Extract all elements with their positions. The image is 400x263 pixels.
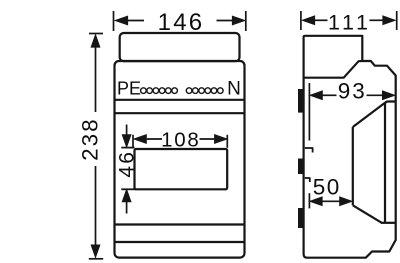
terminal circles group 2 (186, 88, 223, 94)
side view window trapezoid bottom diagonal (353, 205, 382, 222)
front view lid (120, 33, 240, 61)
front view line under PE/N strip (115, 99, 245, 101)
terminal circles group 1 (141, 88, 178, 94)
dim 108 right tick (226, 135, 228, 148)
dim 46 down arrow (126, 125, 128, 137)
front view body (115, 61, 245, 258)
dim 146 line + arrows (127, 20, 144, 22)
svg-text:111: 111 (328, 11, 371, 35)
dim 238 line + arrows (95, 47, 97, 113)
dim 111 line + arrows (314, 19, 328, 21)
dim 111 extension right (396, 11, 398, 30)
svg-text:108: 108 (161, 129, 200, 152)
svg-text:50: 50 (313, 174, 341, 199)
front view lower line 1 (115, 223, 245, 225)
dim 93 left tick (308, 83, 310, 141)
dim 238 bottom tick (89, 258, 103, 260)
svg-text:146: 146 (158, 9, 205, 36)
side view wall tab 3 (298, 208, 303, 228)
dim 46 up arrow (126, 201, 128, 214)
side view wall tab 1 (298, 89, 303, 113)
front view line 2 (115, 112, 245, 114)
dim 108 left tick (132, 135, 134, 148)
side view mounting hook upper (305, 148, 313, 153)
svg-text:PE: PE (117, 78, 141, 98)
side view window face bottom connector (381, 222, 396, 224)
side view window trapezoid top diagonal (353, 103, 385, 127)
dim 146 extension left (113, 11, 115, 31)
svg-text:46: 46 (116, 150, 139, 178)
side view cover parting line (304, 61, 363, 78)
window top edge extension for 46 dim (121, 147, 134, 149)
dim 108 line + arrows (146, 138, 163, 140)
dim 50 line + arrows (321, 200, 342, 202)
svg-text:238: 238 (78, 117, 103, 161)
dim 93 line + arrows (321, 94, 336, 96)
side view window trapezoid left edge (352, 127, 354, 205)
dim 146 extension right (245, 11, 247, 31)
front view window 108x46 (135, 149, 228, 189)
side view outer profile (304, 36, 396, 258)
svg-text:N: N (227, 78, 241, 99)
dim 50 left tick (308, 193, 310, 208)
window bottom edge extension for 46 dim (121, 188, 135, 190)
side view wall tab 2 (298, 159, 303, 175)
svg-text:93: 93 (338, 79, 367, 104)
side view raised window face (vertical A) (385, 102, 396, 223)
dim 238 top tick (89, 33, 103, 35)
dim 111 extension left (300, 11, 302, 30)
front view lower line 2 (115, 241, 245, 243)
side view mounting hook lower (305, 178, 310, 182)
